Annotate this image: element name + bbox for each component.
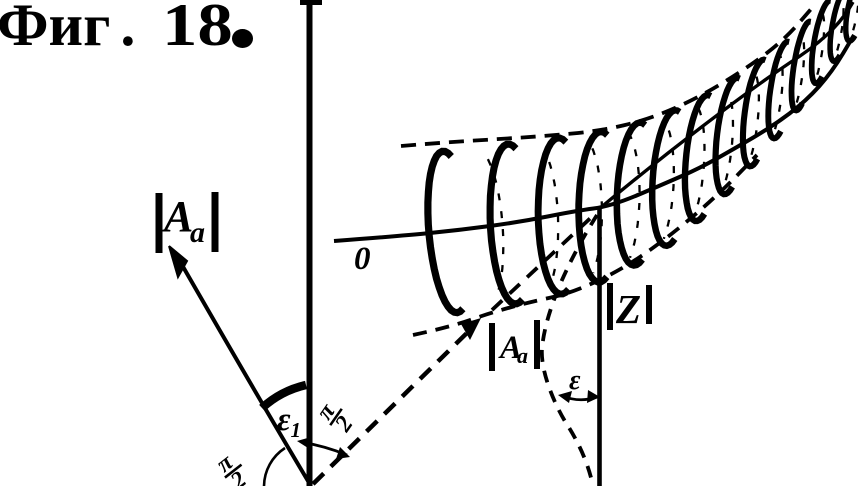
lower dashed envelope bbox=[413, 155, 757, 335]
coil 8 front arc bbox=[716, 78, 740, 194]
coil 4 back dashed arc bbox=[630, 135, 640, 258]
coil 12 front arc bbox=[812, 1, 831, 84]
label pi/2 lower-left (rotated, cut by bottom edge) bbox=[210, 446, 256, 486]
coil 2 back dashed arc bbox=[545, 152, 558, 284]
coil 4 front arc bbox=[579, 132, 608, 282]
coil 7 back dashed arc bbox=[723, 91, 733, 191]
figure caption bbox=[0, 0, 135, 60]
caption end dot bbox=[232, 29, 253, 48]
coil 13 front arc bbox=[830, 0, 849, 61]
coil 13 back dashed arc bbox=[850, 0, 858, 39]
spiral axis curve bbox=[334, 35, 854, 241]
coil 9 front arc bbox=[743, 60, 766, 167]
coil 2 front arc bbox=[490, 144, 522, 304]
label |Aa| left bbox=[159, 192, 215, 253]
coil 3 front arc bbox=[538, 138, 569, 294]
coil 14 front arc bbox=[846, 0, 858, 41]
svg-text:a: a bbox=[517, 343, 528, 368]
coil 5 back dashed arc bbox=[664, 123, 674, 239]
coil 1 back dashed arc bbox=[488, 159, 503, 294]
angle double-arrow arc pi/2 bbox=[301, 442, 347, 455]
vertical axis top cap bbox=[300, 0, 322, 5]
label pi/2 (right of axis, rotated) bbox=[311, 395, 362, 439]
dashed radius vector from origin bbox=[313, 328, 472, 484]
coil 9 back dashed arc bbox=[773, 53, 783, 136]
svg-text:Z: Z bbox=[615, 286, 641, 332]
svg-text:a: a bbox=[190, 216, 205, 249]
coil 12 back dashed arc bbox=[834, 0, 843, 59]
svg-text:A: A bbox=[161, 192, 193, 241]
coil 11 back dashed arc bbox=[815, 13, 824, 82]
line |Z| vertical bbox=[597, 208, 602, 486]
tangent line through |Z| point bbox=[599, 2, 853, 209]
caption number 18 bbox=[162, 0, 233, 60]
coil 11 front arc bbox=[792, 22, 811, 111]
svg-text:0: 0 bbox=[354, 241, 371, 277]
vector |Aa| solid arrow bbox=[178, 258, 311, 486]
vertical axis bbox=[307, 0, 313, 486]
svg-text:ε1: ε1 bbox=[277, 402, 301, 442]
coil 5 front arc bbox=[617, 123, 645, 266]
label |Z| bbox=[610, 283, 649, 332]
coil 1 front arc bbox=[428, 151, 463, 312]
upper dashed envelope bbox=[401, 8, 812, 146]
dashed radius vector continuation to |Z| point bbox=[492, 212, 597, 310]
coil 6 front arc bbox=[652, 110, 680, 246]
coil 10 front arc bbox=[768, 42, 789, 139]
svg-text:2: 2 bbox=[330, 412, 359, 438]
coil 10 back dashed arc bbox=[795, 34, 804, 109]
coil 3 back dashed arc bbox=[591, 145, 602, 273]
angle arc epsilon1 (thick) bbox=[262, 385, 306, 408]
coil 7 front arc bbox=[685, 95, 711, 221]
angle arc epsilon2 (lower left) bbox=[264, 448, 285, 486]
label |Aa| on radius vector bbox=[492, 320, 537, 371]
angle arc epsilon with arrows bbox=[562, 396, 597, 400]
coil 6 back dashed arc bbox=[694, 108, 704, 216]
dashed trajectory curve below |Z| point bbox=[542, 215, 597, 486]
coil 8 back dashed arc bbox=[749, 72, 759, 163]
